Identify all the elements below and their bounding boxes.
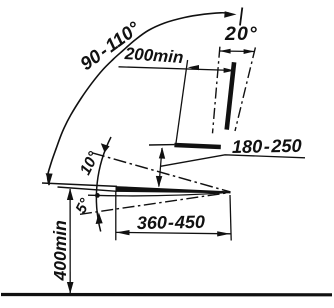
wire horizontal axis C xyxy=(88,192,231,196)
arrow 180-250 bottom xyxy=(156,176,163,188)
wire upper reference line A xyxy=(42,183,117,186)
arrow 360-450 right xyxy=(217,231,230,236)
arrow 20deg left xyxy=(220,49,231,54)
dash-dot line F xyxy=(213,47,220,134)
node junction dot xyxy=(95,193,100,198)
dash-dot line G xyxy=(235,47,255,131)
ground line xyxy=(1,293,332,296)
dash-dot line E (10 deg) xyxy=(92,153,231,192)
arrow 360-450 left xyxy=(116,230,129,235)
svg-text:20°: 20° xyxy=(224,23,258,45)
leader 180-250 xyxy=(161,155,306,167)
arrow 400min top xyxy=(67,188,74,200)
arrow 200min right xyxy=(224,68,235,73)
arrow arc top xyxy=(224,11,236,17)
dash-dot line D (5 deg) xyxy=(80,192,231,214)
dimension line 200min xyxy=(119,67,235,71)
arrow 200min left xyxy=(188,65,199,70)
arrow 20deg right xyxy=(244,49,255,54)
arrow 180-250 top xyxy=(159,147,165,159)
svg-text:200min: 200min xyxy=(123,44,184,67)
extension line 360-450 right xyxy=(230,195,231,241)
arrow 400min bottom xyxy=(67,282,74,294)
angle arc through vertex xyxy=(96,137,111,232)
main element wedge xyxy=(116,186,231,193)
svg-text:360-450: 360-450 xyxy=(137,212,205,233)
dimension line 360-450 xyxy=(116,232,231,233)
arrow down at E crossing xyxy=(101,143,110,152)
dimension 180-250 vertical line xyxy=(159,148,162,187)
arc 90-110 xyxy=(48,13,229,185)
wire lower reference line B xyxy=(58,187,118,191)
svg-text:400min: 400min xyxy=(50,220,70,281)
arrow arc bottom xyxy=(46,173,53,184)
extension line 360-450 left xyxy=(115,191,117,240)
wire bar leader left xyxy=(149,144,174,146)
extension line 200min xyxy=(176,60,188,143)
upper element bar xyxy=(174,145,220,147)
svg-text:180-250: 180-250 xyxy=(232,136,302,157)
arrow up at D crossing xyxy=(96,212,103,224)
dimension 400min vertical line xyxy=(69,189,71,294)
tick at arc end xyxy=(240,8,242,26)
upper right element bar xyxy=(227,62,234,129)
dimension line 20deg xyxy=(220,50,255,53)
